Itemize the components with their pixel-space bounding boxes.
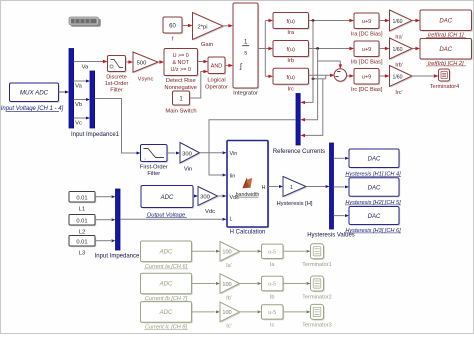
bias block Irb [DC Bias] (u+9) — [351, 41, 383, 66]
svg-text:Input Impedance: Input Impedance — [95, 254, 140, 260]
sum block (minus minus) — [334, 69, 348, 83]
svg-text:Irc': Irc' — [395, 90, 402, 96]
svg-text:DAC: DAC — [368, 186, 381, 192]
svg-text:DAC: DAC — [439, 47, 452, 53]
wire mux to DAC CH6 — [334, 214, 350, 217]
svg-text:Ic': Ic' — [226, 324, 231, 330]
svg-text:Vc: Vc — [75, 121, 82, 127]
svg-text:Irb': Irb' — [395, 63, 403, 69]
fcn block Irb f(u) — [273, 41, 310, 65]
svg-text:Detect Rise: Detect Rise — [166, 78, 196, 84]
fcn block Irc f(u) — [273, 68, 310, 92]
svg-text:Ic: Ic — [270, 323, 275, 329]
svg-text:U >= 0: U >= 0 — [173, 53, 189, 59]
gain Vin (300) — [180, 143, 201, 173]
block Detect Rise Nonnegative — [164, 49, 199, 92]
wire Irb bias to gain — [379, 47, 390, 50]
branch wire Ira down to Reference Currents mux — [300, 21, 313, 105]
block Logical Operator AND — [205, 57, 228, 91]
wire f to Gain — [182, 24, 193, 27]
wire L1 to Input Impedance mux — [95, 195, 116, 198]
svg-text:100: 100 — [222, 250, 231, 256]
wire gain to bias Ic — [240, 310, 262, 313]
gain Gain (2*pi) — [193, 13, 225, 49]
block First-Order Filter — [140, 145, 168, 178]
svg-text:100: 100 — [222, 310, 231, 316]
svg-text:Logical: Logical — [207, 78, 225, 84]
svg-text:0.01: 0.01 — [76, 195, 87, 201]
svg-text:Gain: Gain — [201, 42, 213, 48]
block MUX ADC (Input Voltage [CH 1 - 4]) — [1, 83, 64, 112]
terminator Terminator1 — [302, 244, 332, 268]
svg-text:Main Switch: Main Switch — [165, 109, 196, 115]
svg-text:Input Impedance1: Input Impedance1 — [71, 132, 120, 138]
wire gain to bias Ia — [240, 250, 262, 253]
svg-text:& NOT: & NOT — [172, 60, 189, 66]
svg-text:Filter: Filter — [147, 171, 160, 177]
svg-text:1/60: 1/60 — [392, 75, 402, 81]
svg-text:Operator: Operator — [205, 85, 228, 91]
wire filter to Vsync gain — [126, 60, 134, 63]
svg-text:Ia': Ia' — [226, 263, 232, 269]
wire mux to DAC CH4 — [334, 157, 350, 160]
svg-text:1st-Order: 1st-Order — [105, 81, 129, 87]
svg-text:Irc [DC Bias]: Irc [DC Bias] — [351, 87, 383, 93]
constant L1 (0.01) — [69, 192, 96, 213]
block ADC Current Ic [CH 8] — [141, 302, 193, 331]
svg-text:Terminator4: Terminator4 — [430, 84, 460, 90]
wire Reference Currents to Iin of H Calculation — [209, 120, 296, 177]
svg-text:ADC: ADC — [159, 282, 173, 288]
block ADC Current Ia [CH 6] — [141, 241, 193, 270]
svg-text:L3: L3 — [79, 251, 85, 257]
wire Irc bias to gain — [379, 74, 390, 77]
wire Input Impedance to L port of H Calculation — [120, 218, 227, 221]
gain Vsync (500) — [133, 52, 159, 83]
svg-text:Vin: Vin — [230, 151, 238, 157]
terminator Terminator2 — [302, 276, 332, 300]
gain Ia' (100) — [220, 242, 241, 270]
svg-text:Integrator: Integrator — [233, 91, 258, 97]
svg-text:Iin: Iin — [230, 174, 236, 180]
mux bar Reference Currents — [273, 94, 325, 156]
svg-text:Ib: Ib — [270, 294, 275, 300]
wire filter to Vin gain — [167, 152, 180, 155]
svg-text:Ib': Ib' — [226, 295, 232, 301]
svg-text:DAC: DAC — [439, 19, 452, 25]
bias block Ira [DC Bias] (u+9) — [351, 13, 383, 38]
svg-text:L1: L1 — [79, 207, 85, 213]
wire gain to DAC CH2 — [412, 47, 420, 50]
svg-text:100: 100 — [222, 282, 231, 288]
fcn block Ira f(u) — [273, 13, 310, 37]
svg-text:u+9: u+9 — [362, 47, 372, 53]
wire Vsync to Detect Rise — [158, 60, 164, 63]
terminator Terminator3 — [302, 304, 332, 328]
svg-text:300: 300 — [200, 195, 210, 201]
gain Vdc (300) — [198, 187, 219, 215]
wire bias to Terminator1 — [283, 250, 311, 253]
wire Integrator output branching to f(u) blocks — [258, 19, 273, 78]
mux bar Hysteresis Values — [307, 143, 355, 239]
wire ADC to Vdc gain — [193, 195, 198, 198]
wire Vc demux to mux — [74, 117, 90, 127]
svg-text:Terminator1: Terminator1 — [302, 262, 332, 268]
wire L3 to Input Impedance mux — [95, 239, 116, 242]
svg-text:DAC: DAC — [368, 214, 381, 220]
bias block Irc [DC Bias] (u+9) — [351, 69, 383, 94]
branch wire Irc down to Reference Currents mux — [300, 79, 322, 137]
wire Vb demux to mux — [74, 98, 90, 108]
svg-text:Hysteresis [H]: Hysteresis [H] — [276, 201, 312, 207]
svg-text:300: 300 — [182, 151, 192, 157]
svg-text:s: s — [244, 51, 247, 57]
wire H Calculation to Hysteresis gain — [268, 185, 283, 188]
svg-text:1/60: 1/60 — [392, 19, 402, 25]
svg-text:1: 1 — [290, 185, 293, 191]
svg-text:u+9: u+9 — [362, 75, 372, 81]
svg-text:Terminator2: Terminator2 — [302, 294, 332, 300]
gain Ic' (100) — [220, 302, 241, 330]
block Integrator (1/s) — [233, 3, 259, 97]
wire Hysteresis gain to Hysteresis Values mux — [306, 185, 330, 188]
terminator Terminator4 — [430, 69, 460, 90]
svg-text:Vb: Vb — [75, 102, 82, 108]
block DAC Iref(Ira) [CH 1] — [420, 10, 473, 38]
block DAC Hysteresis [H3] [CH 6] — [345, 207, 401, 234]
wire ADC to gain Ic' — [192, 310, 221, 313]
bias block Ia (u-5) — [262, 244, 285, 268]
svg-text:DAC: DAC — [368, 157, 381, 163]
wire gain to bias Ib — [240, 282, 262, 285]
svg-text:H: H — [262, 185, 266, 191]
wire Irb to DC Bias with branch — [309, 47, 355, 50]
constant L3 (0.01) — [69, 236, 96, 257]
wire bias to Terminator2 — [283, 282, 311, 285]
wire AND to Integrator — [225, 64, 233, 67]
block DAC Hysteresis [H2] [CH 5] — [345, 178, 401, 206]
block DAC Hysteresis [H1] [CH 4] — [345, 149, 401, 177]
wire L2 to Input Impedance mux — [95, 218, 116, 221]
svg-text:0.01: 0.01 — [76, 239, 87, 245]
svg-text:Ira': Ira' — [395, 35, 403, 41]
svg-text:u-5: u-5 — [268, 249, 276, 255]
svg-text:ADC: ADC — [159, 310, 173, 316]
svg-text:f(u): f(u) — [287, 47, 296, 53]
block DAC Iref(Irb) [CH 2] — [420, 39, 473, 67]
wire mux to DAC CH5 — [334, 185, 350, 188]
subsystem H Calculation — [227, 141, 269, 236]
svg-text:Vdc: Vdc — [205, 209, 215, 215]
constant f (60) — [163, 17, 183, 43]
svg-text:Reference Currents: Reference Currents — [273, 149, 325, 155]
gain Ib' (100) — [220, 274, 241, 302]
svg-text:1/60: 1/60 — [392, 47, 402, 53]
wire Main Switch to AND — [190, 70, 209, 98]
wire MUX ADC to demux — [59, 91, 70, 94]
wire gain Irc' to Terminator4 — [412, 74, 439, 77]
wire Vdc gain to H Calculation — [218, 195, 227, 198]
svg-text:u-5: u-5 — [268, 310, 276, 316]
svg-text:AND: AND — [211, 64, 222, 70]
svg-text:Terminator3: Terminator3 — [302, 323, 332, 329]
gain Irc' (1/60) — [390, 66, 414, 97]
mux bar Input Impedance1 — [71, 71, 120, 138]
svg-text:Discrete: Discrete — [106, 75, 127, 81]
wire Irc to Sum — [309, 74, 335, 81]
wire Ira to DC Bias with branch — [309, 19, 355, 22]
block ADC Output Voltage — [141, 186, 194, 219]
bias block Ib (u-5) — [262, 276, 285, 300]
svg-text:H Calculation: H Calculation — [230, 230, 266, 236]
wire Va to Discrete Filter — [74, 60, 108, 71]
svg-text:L: L — [230, 217, 233, 223]
wire Vin gain to H Calculation — [200, 151, 227, 154]
svg-text:Ira: Ira — [287, 30, 295, 36]
svg-text:f(u): f(u) — [287, 19, 296, 25]
svg-text:ADC: ADC — [159, 249, 173, 255]
svg-text:L2: L2 — [79, 230, 85, 236]
wire bias to Terminator3 — [283, 310, 311, 313]
svg-text:Vsync: Vsync — [138, 77, 154, 83]
wire Sum to Irc DC Bias — [347, 74, 355, 77]
branch wire Irb to Sum top input — [318, 61, 342, 69]
demux bar (input voltages) — [69, 49, 74, 129]
svg-text:60: 60 — [169, 24, 176, 30]
gain Hysteresis [H] (1) — [276, 177, 312, 208]
svg-text:Irb: Irb — [287, 58, 294, 64]
block ADC Current Ib [CH 7] — [141, 273, 193, 302]
gain Irb' (1/60) — [390, 38, 414, 69]
bias block Ic (u-5) — [262, 305, 285, 329]
mux bar Input Impedance — [95, 189, 140, 260]
constant L2 (0.01) — [69, 215, 96, 236]
gain Ira' (1/60) — [390, 10, 414, 41]
branch wire Irb down to Reference Currents mux — [300, 49, 317, 122]
wire ADC to gain Ia' — [192, 250, 221, 253]
wire Input Impedance1 to First-Order Filter — [95, 99, 141, 155]
wire Ira bias to gain — [379, 19, 390, 22]
svg-text:f(u): f(u) — [287, 75, 296, 81]
wire ADC to gain Ib' — [192, 282, 221, 285]
wire gain to DAC CH1 — [412, 19, 420, 22]
svg-text:U/z >= 0: U/z >= 0 — [171, 67, 191, 73]
svg-text:u+9: u+9 — [362, 19, 372, 25]
wire Va demux to mux — [74, 80, 90, 90]
wire Gain to Integrator — [223, 24, 233, 27]
svg-text:MUX ADC: MUX ADC — [20, 90, 49, 97]
svg-text:Nonnegative: Nonnegative — [164, 85, 197, 91]
svg-text:2*pi: 2*pi — [198, 24, 208, 30]
svg-text:Filter: Filter — [110, 88, 123, 94]
constant Main Switch (1) — [165, 91, 196, 115]
svg-text:Ira [DC Bias]: Ira [DC Bias] — [351, 32, 383, 38]
svg-text:Vin: Vin — [184, 167, 192, 173]
svg-text:↓: ↓ — [144, 156, 146, 161]
wire Detect Rise to AND — [198, 60, 209, 63]
svg-text:500: 500 — [137, 60, 147, 66]
svg-text:ADC: ADC — [160, 195, 174, 201]
block Discrete 1st-Order Filter — [105, 56, 129, 94]
svg-text:u-5: u-5 — [268, 282, 276, 288]
svg-text:Irc: Irc — [287, 87, 294, 93]
svg-text:0.01: 0.01 — [76, 218, 87, 224]
logo badge — [69, 17, 101, 27]
svg-text:Va: Va — [75, 84, 82, 90]
svg-text:Irb [DC Bias]: Irb [DC Bias] — [351, 60, 383, 66]
svg-text:First-Order: First-Order — [140, 165, 168, 171]
svg-text:Va: Va — [82, 65, 89, 71]
